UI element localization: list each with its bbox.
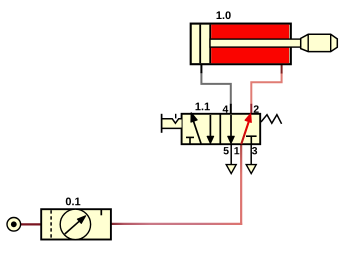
wire cylinder right port to valve port 2 (salmon, pressurized) — [251, 73, 281, 105]
return spring (right) — [261, 115, 282, 124]
cylinder right port stub (dark red) — [281, 64, 283, 74]
regulator adjustment tick — [100, 210, 102, 215]
port label 5 — [224, 147, 229, 154]
port label 2 — [254, 105, 259, 112]
cylinder piston right edge — [209, 25, 211, 64]
air service unit 0.1 body — [41, 209, 111, 239]
port label 1 — [234, 147, 239, 154]
wire source to regulator (dark maroon) — [20, 223, 41, 225]
wire regulator to valve port 1 (horizontal, pressure gradient) — [112, 223, 243, 225]
cylinder 1.0 pressurized chamber (red) — [211, 25, 289, 64]
service unit dashed separator — [50, 210, 52, 239]
left box flow arrow 1->4 — [193, 120, 201, 144]
valve divider — [219, 114, 221, 144]
wire valve port 1 (vertical riser) — [240, 144, 242, 225]
rod end coupling — [301, 34, 338, 51]
left box blocked port T (5) — [186, 136, 194, 138]
exhaust triangle port 5 — [226, 165, 236, 174]
left box flow arrow 2->3 (down) — [209, 115, 211, 137]
compressed air source — [7, 218, 21, 232]
label 1.0 — [217, 11, 231, 19]
cylinder piston rod — [210, 39, 301, 47]
right box flow arrow 4->5 (down) — [230, 115, 232, 137]
wire cylinder left port to valve port 4 (gray, exhausted) — [201, 73, 230, 105]
cylinder 1.0 body — [191, 24, 291, 65]
label 0.1 — [66, 198, 81, 206]
cylinder left port stub (black) — [200, 64, 202, 74]
right box blocked port T (3) — [246, 135, 257, 137]
label 1.1 — [196, 103, 210, 111]
gauge needle — [65, 220, 81, 234]
manual detent actuator (left) — [162, 119, 181, 127]
port label 4 — [223, 105, 229, 112]
valve 1.1 body — [182, 114, 261, 144]
valve port 4 stub (black) — [230, 104, 232, 114]
exhaust triangle port 3 — [246, 165, 256, 174]
cylinder piston left edge — [199, 25, 201, 64]
port label 3 — [252, 147, 257, 154]
valve port 5 exhaust stub — [230, 144, 232, 164]
valve port 3 exhaust stub — [250, 144, 252, 164]
right box flow arrow 1->2 (red, active) — [241, 120, 249, 144]
pressure gauge circle — [60, 209, 90, 239]
valve port 2 stub (crimson) — [250, 104, 252, 114]
